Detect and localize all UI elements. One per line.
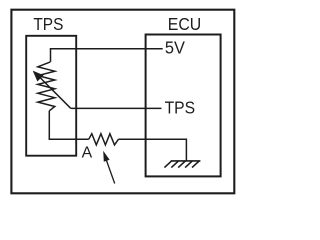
- svg-text:ECU: ECU: [168, 14, 201, 34]
- TPS box: [26, 36, 76, 156]
- svg-text:A: A: [82, 145, 93, 162]
- outer frame: [11, 10, 234, 194]
- potentiometer R1 body: [38, 62, 55, 111]
- svg-text:TPS: TPS: [33, 14, 63, 34]
- svg-text:TPS: TPS: [165, 97, 196, 117]
- wire TPS signal net: [71, 107, 162, 109]
- resistor A body: [89, 134, 119, 145]
- potentiometer R1 wiper arrow: [40, 78, 71, 109]
- ground symbol: [164, 161, 200, 168]
- annotation arrow pointing at resistor A: [106, 160, 114, 184]
- svg-text:5V: 5V: [165, 38, 185, 58]
- wire 5V net: [51, 49, 163, 62]
- annotation arrowhead: [103, 151, 109, 162]
- wire resistor A to ground: [119, 139, 187, 161]
- ECU box: [146, 35, 221, 177]
- potentiometer wiper arrowhead: [33, 71, 44, 82]
- wire pot bottom to resistor A: [49, 111, 89, 139]
